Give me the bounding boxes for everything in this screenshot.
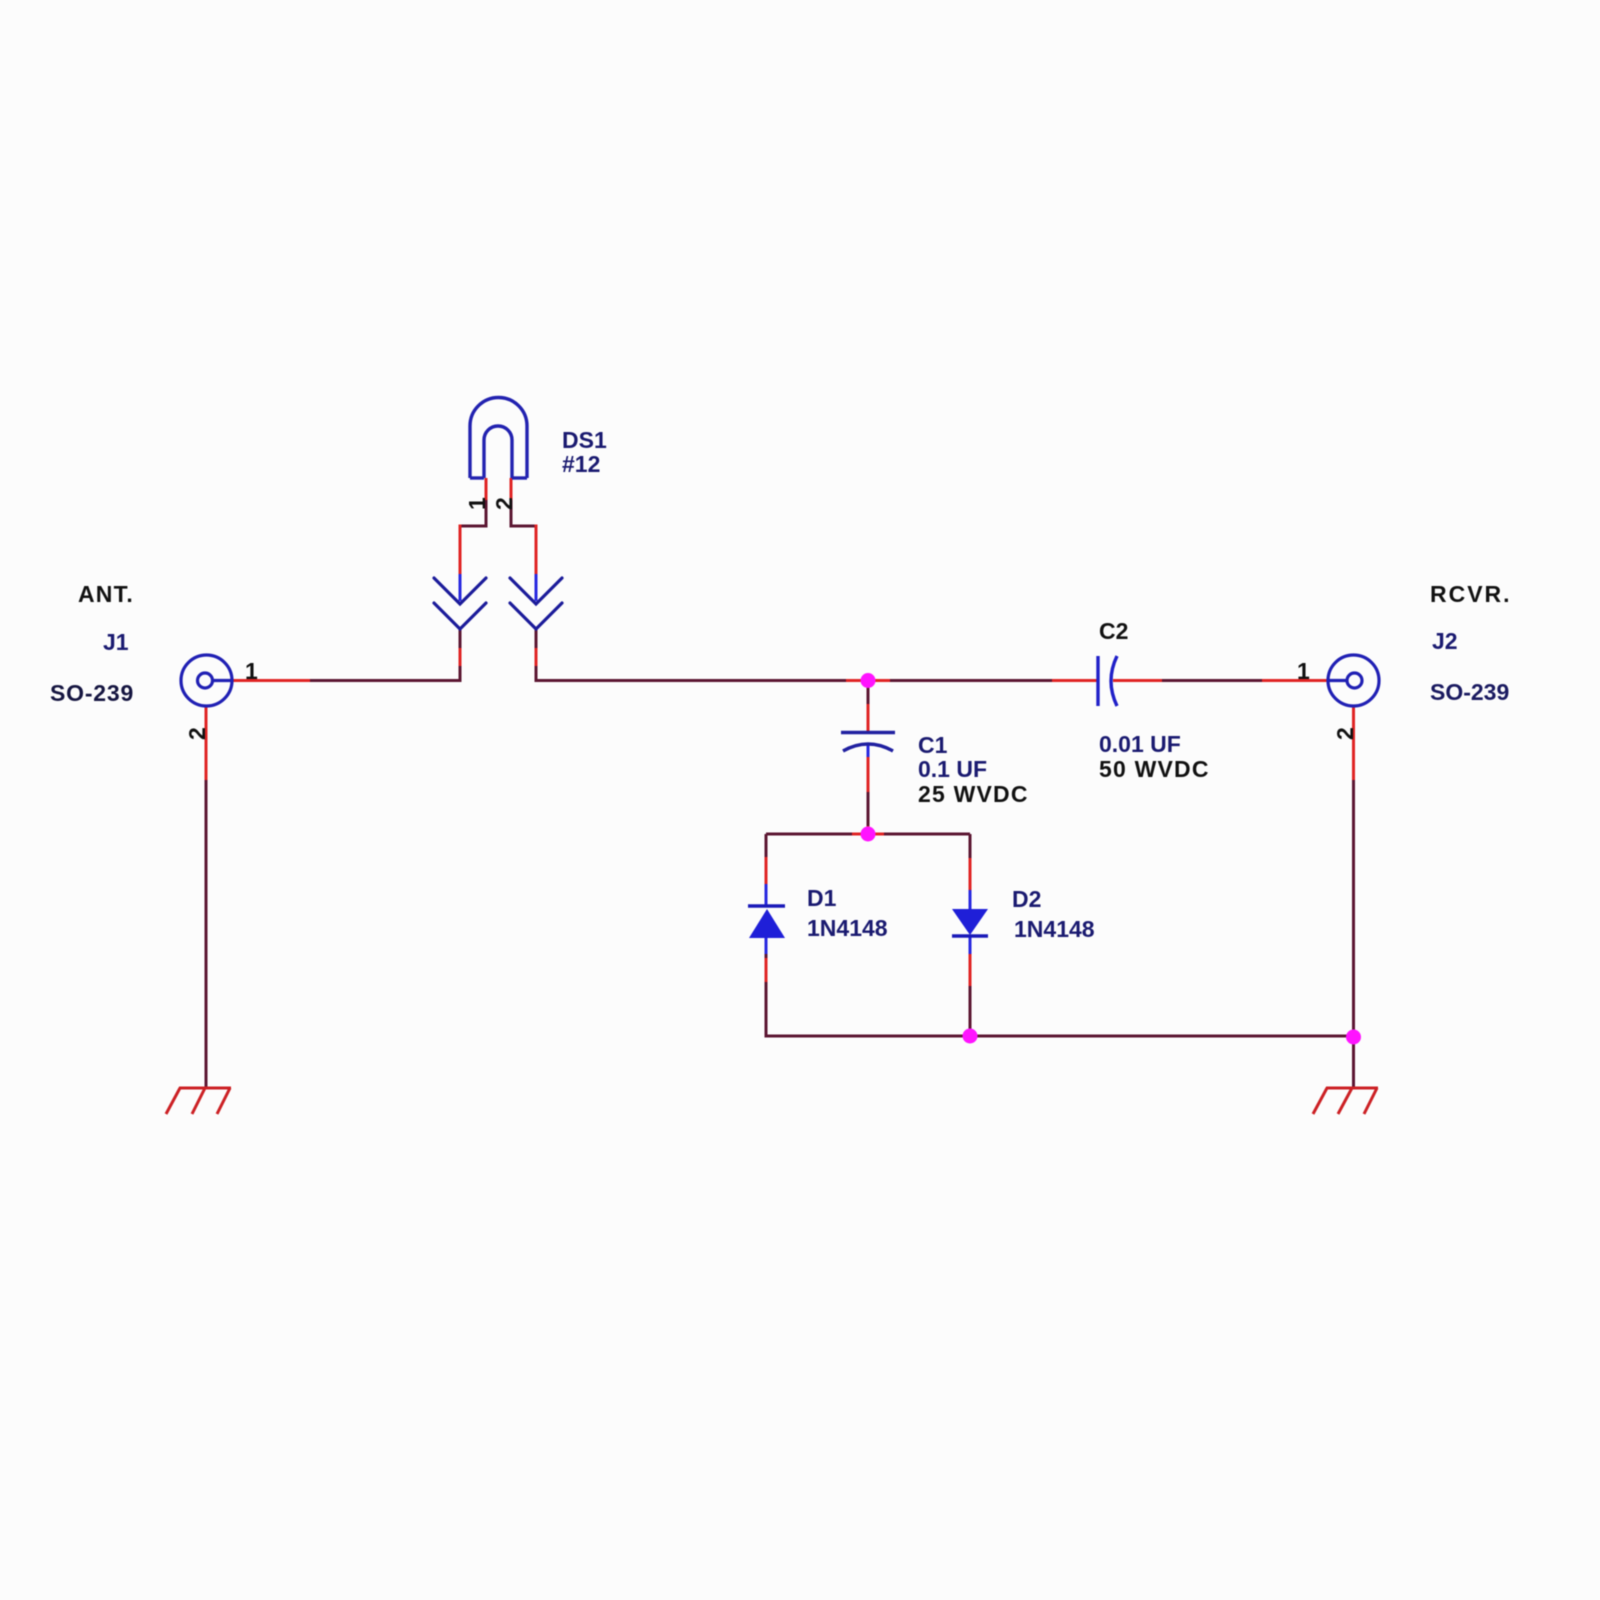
svg-text:C2: C2 bbox=[1099, 618, 1128, 644]
svg-text:50 WVDC: 50 WVDC bbox=[1099, 756, 1210, 782]
svg-text:1N4148: 1N4148 bbox=[1014, 916, 1095, 942]
svg-text:2: 2 bbox=[491, 497, 517, 510]
svg-text:DS1: DS1 bbox=[562, 427, 607, 453]
svg-text:J1: J1 bbox=[103, 629, 129, 655]
svg-text:SO-239: SO-239 bbox=[50, 680, 134, 706]
svg-text:0.01 UF: 0.01 UF bbox=[1099, 731, 1181, 757]
svg-text:C1: C1 bbox=[918, 732, 948, 758]
svg-text:2: 2 bbox=[184, 727, 210, 740]
svg-text:1: 1 bbox=[1297, 658, 1310, 684]
svg-text:RCVR.: RCVR. bbox=[1430, 581, 1512, 607]
svg-text:2: 2 bbox=[1332, 727, 1358, 740]
svg-text:1: 1 bbox=[464, 497, 490, 510]
svg-text:0.1 UF: 0.1 UF bbox=[918, 756, 987, 782]
svg-text:D1: D1 bbox=[807, 885, 837, 911]
svg-text:ANT.: ANT. bbox=[78, 581, 134, 607]
svg-text:1: 1 bbox=[245, 658, 258, 684]
svg-text:1N4148: 1N4148 bbox=[807, 915, 888, 941]
svg-text:25 WVDC: 25 WVDC bbox=[918, 781, 1029, 807]
svg-text:#12: #12 bbox=[562, 451, 600, 477]
svg-text:D2: D2 bbox=[1012, 886, 1041, 912]
svg-text:J2: J2 bbox=[1432, 628, 1458, 654]
svg-text:SO-239: SO-239 bbox=[1430, 679, 1509, 705]
